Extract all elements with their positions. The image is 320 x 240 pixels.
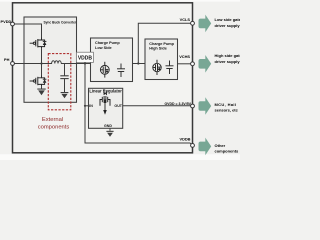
svg-text:Low Side: Low Side [95, 46, 112, 50]
svg-text:OUT: OUT [114, 104, 122, 108]
svg-text:driver supply: driver supply [215, 23, 241, 28]
svg-text:Sync Buck Converter: Sync Buck Converter [43, 21, 77, 25]
svg-text:IN: IN [89, 104, 93, 108]
svg-text:PH: PH [4, 57, 10, 62]
svg-text:components: components [215, 148, 240, 153]
svg-text:Linear Regulator: Linear Regulator [89, 88, 122, 93]
svg-text:High Side: High Side [149, 47, 167, 51]
svg-text:components: components [38, 125, 70, 131]
svg-text:sensors, etc: sensors, etc [215, 107, 239, 112]
svg-text:VDDB: VDDB [179, 137, 190, 142]
svg-text:VDDB: VDDB [78, 55, 93, 61]
svg-text:VCLS: VCLS [180, 17, 191, 22]
svg-text:Charge Pump: Charge Pump [95, 41, 120, 45]
svg-text:VCHS: VCHS [179, 54, 190, 59]
svg-text:GND: GND [104, 124, 112, 128]
svg-text:External: External [42, 117, 63, 123]
svg-text:PVDD: PVDD [1, 19, 12, 24]
svg-text:Charge Pump: Charge Pump [149, 42, 174, 46]
svg-text:High side gate: High side gate [215, 53, 241, 58]
svg-text:Low side gate: Low side gate [215, 17, 241, 22]
svg-text:OVDD = 3.3V/5V: OVDD = 3.3V/5V [164, 102, 191, 106]
svg-text:driver supply: driver supply [215, 59, 241, 64]
